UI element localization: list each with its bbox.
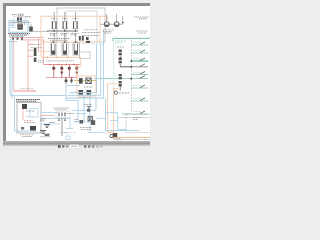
wire teal long — [94, 78, 148, 80]
gray leads below relays — [79, 43, 81, 52]
switch row 8 — [131, 100, 148, 102]
fuse leads — [54, 12, 75, 42]
red internal wire — [22, 109, 24, 120]
switch row 9 — [131, 113, 148, 115]
dashed connector box — [56, 111, 70, 118]
small comp left of E2 — [21, 127, 24, 130]
red bus lower — [46, 77, 77, 79]
labels under bus — [50, 33, 79, 35]
switch row 1 — [131, 44, 148, 46]
orange junction dots — [47, 57, 69, 59]
wire blue rb2 — [106, 113, 118, 121]
wire orange A — [107, 84, 109, 132]
wire orange B — [113, 89, 115, 134]
wire yellow — [74, 79, 97, 81]
comp inside M1 a — [79, 78, 83, 84]
red label inside ECU — [24, 120, 33, 122]
junction box outline inner — [66, 11, 97, 42]
red label text — [20, 88, 33, 90]
relay K3 — [63, 44, 67, 51]
diode pack D2 — [53, 65, 55, 78]
text under M1 — [78, 97, 91, 99]
internal text — [24, 111, 36, 123]
gray row 4 — [121, 66, 149, 68]
wire blue v1 — [70, 44, 97, 94]
wire gray to center — [33, 30, 48, 32]
wire red feed — [10, 37, 44, 39]
dashed gnd line — [64, 132, 76, 134]
satellite text — [134, 17, 149, 19]
text under cluster — [80, 128, 92, 130]
wire blue drop d — [96, 98, 104, 110]
comp bottom of junction box — [86, 37, 89, 40]
wire blue bend bundle — [66, 86, 96, 98]
wire red vertical A — [38, 38, 40, 52]
teal stub into box — [122, 113, 131, 115]
sensor S1 — [87, 109, 90, 112]
comp E1 — [22, 104, 27, 109]
page border dark top — [3, 3, 150, 6]
bottom toolbar strip — [0, 146, 150, 150]
panel label teal text — [115, 41, 126, 43]
wire red branch — [20, 39, 44, 41]
tiny text right page bottom — [113, 137, 121, 139]
orange bottom rail — [41, 42, 81, 57]
red junction dots — [49, 64, 74, 65]
fuse F1 — [52, 22, 56, 28]
wire blue v2 — [68, 44, 101, 96]
comp S3 — [80, 120, 84, 124]
wire blue drop a — [83, 95, 85, 122]
text gnd labels — [40, 119, 46, 121]
relay K1 — [17, 24, 22, 30]
junction dots on yellow — [79, 80, 89, 82]
wire red vertical B — [43, 40, 45, 65]
breaker CB2 — [119, 74, 122, 76]
switch row labels — [133, 43, 141, 112]
wire red left vertical — [13, 40, 15, 91]
gray line under — [118, 139, 150, 141]
text in dashed box — [133, 118, 140, 120]
blue sub-box inside ECU — [30, 109, 38, 118]
bus wire dark — [47, 30, 78, 32]
gray line right — [118, 116, 150, 118]
blue harness horizontals — [72, 109, 96, 111]
text top right — [136, 31, 148, 33]
wires out right blue — [41, 112, 70, 128]
title text row — [16, 100, 40, 102]
diode pack D5 — [76, 65, 78, 78]
red label specks — [9, 42, 42, 48]
fuse block orange box — [41, 16, 100, 42]
fuse F3 — [74, 22, 78, 28]
text W — [117, 46, 124, 48]
blue feed into box — [15, 96, 37, 131]
wire red horizontal lower — [14, 90, 36, 92]
solenoid L1 — [29, 27, 33, 32]
(RUB) text — [119, 92, 129, 94]
junction dots on top — [53, 41, 77, 43]
switch row 6 — [140, 76, 145, 79]
power outlet J2 — [114, 22, 119, 27]
wire blue long horizontal — [10, 94, 66, 96]
relay K2 — [52, 44, 56, 51]
wire blue rb3 — [110, 121, 126, 130]
dashed box around D1 — [14, 17, 26, 23]
wire feeds — [100, 14, 123, 24]
ground G3 — [44, 134, 50, 135]
wire red mid vertical with stubs — [28, 40, 33, 91]
blue stubs right — [60, 129, 73, 133]
stub vertical — [24, 23, 26, 25]
blue connector marks — [66, 136, 70, 139]
wire orange stub relay right — [77, 57, 81, 76]
dashed ECM box — [126, 114, 150, 132]
white page — [6, 6, 150, 141]
wire blue rb1 — [106, 98, 140, 131]
orange mid line — [38, 51, 52, 53]
tiny connector marks — [12, 37, 14, 39]
wire blue v3 — [66, 30, 104, 98]
text under outlets — [103, 30, 114, 33]
panel left pale edge — [113, 41, 115, 128]
breaker CB1 — [119, 50, 122, 53]
connector box C200 (blue) — [9, 21, 28, 32]
label text L1 — [12, 14, 31, 17]
outer background — [0, 0, 150, 150]
comp inside M1 d — [87, 90, 92, 95]
small text mid — [66, 78, 72, 85]
text above — [84, 104, 92, 106]
panel left stub — [112, 38, 114, 41]
switch row 2 — [131, 52, 148, 54]
wire blue drop b — [89, 93, 91, 123]
panel top edge — [113, 37, 150, 39]
comp S4 — [91, 120, 95, 125]
junction box outline outer — [57, 8, 105, 42]
label text left — [38, 61, 74, 63]
text in M1 — [84, 86, 93, 88]
junction dot — [122, 22, 124, 24]
connector P1 dark — [34, 48, 37, 56]
lamp symbol — [114, 91, 117, 94]
fuse labels — [51, 18, 78, 20]
inner box text rows — [82, 30, 100, 36]
pins — [59, 113, 65, 117]
fuse F4 right — [79, 36, 81, 41]
switch row 3 thick — [131, 60, 148, 62]
wire orange A horiz — [108, 83, 118, 85]
fuse F2 — [63, 22, 67, 28]
red bus upper — [44, 64, 81, 66]
wire blue dashed feeder — [82, 43, 104, 45]
label row2 — [48, 39, 70, 41]
comp E2 — [30, 126, 36, 130]
diode D1 block — [17, 17, 19, 22]
label text row under cluster — [8, 34, 30, 35]
text under — [114, 139, 123, 141]
wire out red — [41, 114, 54, 116]
switch row 7 — [131, 87, 148, 89]
wire orange B stub — [114, 88, 119, 90]
blue link right — [96, 117, 105, 119]
dashed boundary — [130, 40, 132, 112]
page bottom shadow band — [3, 141, 150, 146]
relay K4 — [74, 44, 78, 51]
power outlet J1 — [104, 22, 109, 27]
box outline — [17, 103, 41, 134]
comp inside M1 c — [79, 90, 84, 95]
blue pin text — [11, 24, 16, 27]
wires down — [59, 118, 65, 136]
junction dots on dashed — [130, 60, 132, 79]
junction dots — [53, 30, 76, 32]
wire blue left pair — [10, 39, 12, 100]
switch row 5 — [131, 74, 148, 76]
comp inside M1 b (x-box) — [86, 78, 91, 84]
diode pack D4 — [68, 65, 70, 78]
blue stub line — [9, 35, 24, 37]
sensor S2 x-box — [88, 117, 92, 121]
text under box — [20, 135, 34, 137]
ground G1 — [44, 125, 50, 128]
page border dark left — [3, 3, 6, 144]
ground G2 — [40, 131, 46, 134]
wire blue drop c — [66, 98, 78, 123]
module box M1 (orange) — [77, 76, 96, 96]
glow plug symbol — [113, 133, 117, 137]
orange stub — [100, 16, 108, 20]
text right of box — [53, 108, 79, 121]
relay outline boxes — [50, 43, 56, 56]
diode pack D3 — [61, 65, 63, 78]
wire — [10, 22, 30, 24]
blue links in cluster — [75, 114, 106, 133]
wire orange bottom — [108, 132, 150, 137]
